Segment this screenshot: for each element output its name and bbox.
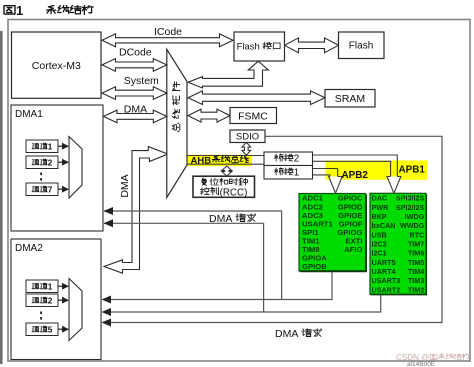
DMA2 channel 通道2 <box>26 294 58 307</box>
svg-text:UART4: UART4 <box>372 267 396 276</box>
hollow bus arrow DMA2-to-busmatrix (vertical DMA) <box>104 147 168 274</box>
svg-text:DMA: DMA <box>119 174 131 197</box>
left gray screen-edge bar <box>0 31 3 364</box>
wire AHB bus line upper <box>187 155 264 157</box>
svg-text:DMA: DMA <box>275 328 298 340</box>
svg-text:USB: USB <box>372 230 387 239</box>
green box APB2 peripherals <box>299 194 366 271</box>
wire DMA request APB2 tap <box>104 271 332 300</box>
svg-text:USART3: USART3 <box>372 276 401 285</box>
box 桥接1 <box>264 166 313 180</box>
svg-text:1: 1 <box>294 168 299 179</box>
arrowhead into DMA1 line2 <box>104 219 114 227</box>
bus arrow Flash接口 to Flash <box>285 38 339 53</box>
svg-text:I2C1: I2C1 <box>372 249 387 258</box>
wire DMA request branch to DMA1 line1 <box>104 211 282 300</box>
arrow DMA2 通道2 to mux <box>58 299 62 301</box>
box SRAM <box>325 90 375 108</box>
arrowhead into DMA1 line1 <box>104 207 114 215</box>
svg-text:SPI3/I2S: SPI3/I2S <box>396 194 425 203</box>
svg-text:al14B00E: al14B00E <box>407 361 436 367</box>
svg-text:7: 7 <box>48 186 53 195</box>
svg-text:2: 2 <box>48 297 53 306</box>
svg-text:Cortex-M3: Cortex-M3 <box>32 60 81 72</box>
bus arrow RCC vertical <box>222 166 232 176</box>
svg-text:DAC: DAC <box>372 194 388 203</box>
svg-text:BKP: BKP <box>372 212 387 221</box>
arrow funnel APB1 into DAC box <box>387 177 401 194</box>
svg-text:WWDG: WWDG <box>400 221 425 230</box>
arrow DMA2 通道1 to mux <box>58 285 62 287</box>
svg-text:2: 2 <box>48 159 53 168</box>
box 桥接2 <box>264 152 313 166</box>
svg-text:APB2: APB2 <box>342 170 369 181</box>
yellow highlight AHB系统总线 <box>186 155 252 166</box>
arrow 通道2 to mux <box>58 161 62 163</box>
title 图1 系统结构 <box>4 6 15 14</box>
svg-text:SPI2/I2S: SPI2/I2S <box>396 203 425 212</box>
svg-text:TIM3: TIM3 <box>408 276 424 285</box>
svg-text:SRAM: SRAM <box>335 93 365 105</box>
svg-text:DMA1: DMA1 <box>15 109 43 120</box>
svg-text:DMA: DMA <box>124 104 147 116</box>
bus arrow DMA cortex <box>104 110 167 123</box>
svg-text:1: 1 <box>48 283 53 292</box>
svg-text:DMA2: DMA2 <box>15 243 43 254</box>
DMA1 channel 通道1 <box>26 140 58 153</box>
arrowhead into DMA2 line3 <box>102 319 112 327</box>
svg-text:FSMC: FSMC <box>238 110 268 122</box>
svg-text:AHB: AHB <box>191 155 212 166</box>
arrow funnel APB2 into ADC box <box>329 177 342 194</box>
arrowhead into DMA2 line2 <box>102 308 112 316</box>
label 总线矩阵 (rotated) <box>172 82 180 132</box>
box DMA1 <box>11 105 103 231</box>
svg-text:1: 1 <box>48 143 53 152</box>
bus arrow SDIO vertical <box>242 142 251 155</box>
DMA1 channel 通道7 <box>26 183 58 196</box>
DMA2 channel 通道1 <box>26 280 58 293</box>
box Cortex-M3 <box>12 32 102 98</box>
wire 桥接1 to APB2 upper <box>313 169 338 177</box>
svg-text:DCode: DCode <box>119 47 152 59</box>
bus arrow busmatrix to SRAM <box>188 91 325 105</box>
svg-text:SDIO: SDIO <box>236 132 259 143</box>
bus arrow busmatrix to FSMC <box>188 109 230 122</box>
svg-text:AFIO: AFIO <box>344 245 362 254</box>
svg-text:Flash: Flash <box>237 42 260 53</box>
svg-text:2: 2 <box>294 154 299 165</box>
box DMA2 <box>11 239 101 360</box>
svg-text:System: System <box>124 75 159 87</box>
svg-text:ICode: ICode <box>154 26 182 38</box>
svg-text:APB1: APB1 <box>399 164 426 175</box>
svg-text:(RCC): (RCC) <box>220 187 248 198</box>
arrow 通道1 to mux <box>58 145 62 147</box>
svg-text:IWDG: IWDG <box>405 212 425 221</box>
dots between channels <box>40 173 42 176</box>
svg-text:I2C2: I2C2 <box>372 240 387 249</box>
svg-text:UART5: UART5 <box>372 258 396 267</box>
bus arrow System <box>102 87 167 100</box>
svg-text:TIM2: TIM2 <box>408 285 424 294</box>
svg-text:1: 1 <box>16 3 23 18</box>
svg-text:TIM7: TIM7 <box>408 240 424 249</box>
dots between channels <box>40 312 42 315</box>
box SDIO <box>230 130 265 143</box>
svg-text:TIM4: TIM4 <box>408 267 424 276</box>
DMA1 mux trapezoid <box>69 137 82 199</box>
DMA2 mux trapezoid <box>69 279 82 341</box>
green box APB1 peripherals <box>370 193 426 294</box>
wire DMA request branch to DMA1 line2 <box>104 223 264 312</box>
svg-text:bxCAN: bxCAN <box>372 221 396 230</box>
bus arrow DCode <box>102 59 167 72</box>
box FSMC <box>230 108 277 124</box>
svg-text:5: 5 <box>48 326 53 335</box>
arrowhead into DMA2 line1 <box>102 296 112 304</box>
bus arrow busmatrix to Flash interface (bent) <box>188 61 268 88</box>
svg-text:USART2: USART2 <box>372 285 401 294</box>
wire 桥接2 to APB1 upper <box>313 155 398 177</box>
svg-text:DMA: DMA <box>209 213 232 225</box>
box Flash <box>339 32 385 59</box>
arrow 通道7 to mux <box>58 188 62 190</box>
svg-text:Flash: Flash <box>349 41 373 52</box>
wire 桥接2 to APB1 lower <box>313 161 391 176</box>
svg-text:GPIOB: GPIOB <box>302 262 327 271</box>
bus matrix 总线矩阵 <box>167 49 187 197</box>
arrow DMA2 通道5 to mux <box>58 328 62 330</box>
svg-text:TIM5: TIM5 <box>408 258 424 267</box>
wire SDIO DMA request <box>103 136 442 322</box>
wire DMA request APB1 tap <box>104 294 381 312</box>
svg-text:RTC: RTC <box>410 230 425 239</box>
DMA1 channel 通道2 <box>26 156 58 169</box>
svg-text:TIM6: TIM6 <box>408 249 424 258</box>
box 复位和时钟控制(RCC) <box>193 176 255 197</box>
DMA2 channel 通道5 <box>26 323 58 336</box>
bus arrow ICode <box>102 34 233 47</box>
box Flash 接口 <box>234 32 285 61</box>
yellow highlight APB band <box>326 161 428 180</box>
svg-text:PWR: PWR <box>372 203 390 212</box>
wire AHB bus line lower <box>187 163 264 165</box>
wire 桥接1 to APB2 lower <box>313 175 331 177</box>
